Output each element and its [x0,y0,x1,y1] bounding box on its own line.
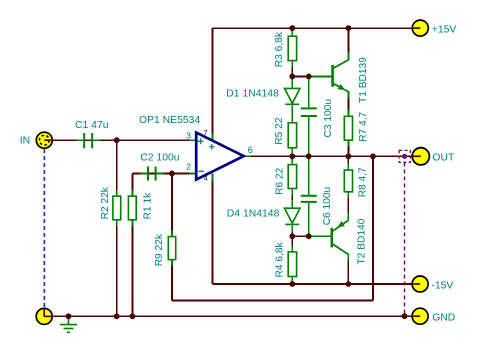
svg-text:7: 7 [204,128,208,137]
terminal +15V [412,20,428,36]
wire R9 bottom to feedback run [171,260,173,301]
R6 pin stubs [291,160,293,165]
svg-text:-15V: -15V [431,280,453,291]
wire pin2 node down to R9 [171,173,173,236]
svg-text:R9 22k: R9 22k [154,233,165,266]
capacitor C6 [301,196,317,202]
svg-text:R8 4,7: R8 4,7 [358,167,369,197]
svg-text:C6 100u: C6 100u [322,187,333,226]
wire IN to op-amp pin3 [44,139,196,141]
svg-text:R2 22k: R2 22k [100,186,111,219]
node +15V rail R3 [289,25,295,31]
op-amp pin7 stub [211,133,213,141]
wire R6 bottom to D4 anode [291,189,293,209]
R9 pin stubs [171,231,173,237]
svg-text:OUT: OUT [432,153,455,164]
wire output line op-amp pin6 to OUT [244,155,421,157]
virtual input link dashed [43,149,45,309]
svg-text:C3 100u: C3 100u [323,99,334,138]
svg-text:T2 BD140: T2 BD140 [357,218,368,264]
resistor R6 [288,165,296,189]
R4 pin stubs [291,246,293,252]
node B D4/R4 [289,233,295,239]
C3 pins [308,76,310,108]
probe dashed box [399,150,410,162]
T2 base pin [309,235,331,237]
svg-text:OP1 NE5534: OP1 NE5534 [139,115,200,126]
node output R5/R6 [289,153,295,159]
resistor R9 [168,237,175,260]
svg-text:C2 100u: C2 100u [140,152,180,163]
wire R4 bottom to -15V rail [291,277,293,285]
resistor R8 [344,170,352,192]
wire -15V rail [212,283,420,285]
terminal OUT [412,148,429,165]
ground [60,316,77,332]
wire input node down to R2 [116,140,118,196]
node GND ground symbol [66,313,72,319]
node -15V rail R4 [289,281,295,287]
svg-text:3: 3 [186,130,191,140]
op-amp pin3 stub [190,139,197,141]
C1 pins [77,139,85,141]
resistor R4 [288,252,296,277]
svg-text:C1 47u: C1 47u [75,120,109,131]
wire R2 bottom to GND rail [116,220,118,316]
svg-text:4: 4 [204,174,208,183]
wire GND bottom rail [44,315,420,317]
node A C3 [306,74,312,80]
wire C2 left down to R1 [131,173,133,196]
wire node B horizontal to T2 base [292,235,310,237]
op-amp pin4 stub [211,174,213,182]
terminal bottom-left GND pad [36,308,52,324]
wire feedback horizontal run [172,299,373,301]
node GND R1 [130,313,136,319]
wire R8 bottom to T2 emitter [347,192,349,214]
op-amp U1 OP1 NE5534 [196,128,244,183]
terminal GND [412,308,428,324]
capacitor C1 [84,133,92,148]
R7 pin stubs [347,110,349,116]
op-amp - input marker [198,170,204,172]
wire R7 bottom to output node [347,140,349,156]
wire R3 bottom to node A [291,61,293,89]
resistor R3 [288,36,296,60]
node output feedback [370,153,376,159]
svg-text:IN: IN [20,136,30,147]
R5 pin stubs [291,148,293,154]
svg-text:R4 6,8k: R4 6,8k [275,241,286,277]
svg-text:+15V: +15V [432,25,457,36]
node pin2/R9 junction [169,171,175,177]
T1 collector lead [334,52,349,68]
wire +15V top rail [44,28,421,316]
node -15V rail T2 collector [345,281,351,287]
R1 pin stubs [131,190,133,196]
capacitor C2 [148,167,156,181]
wire bias column R3 top pin [291,28,293,36]
node B C6 [306,233,312,239]
op-amp + input marker [198,138,204,144]
R8 pin stubs [347,164,349,171]
resistor R5 [288,123,296,148]
svg-text:2: 2 [186,162,191,172]
terminal -15V [412,276,428,292]
C6 pins [308,156,310,195]
svg-text:R5 22: R5 22 [274,117,285,145]
transistor Q1 T1 BD139 [331,65,345,90]
node A R3/D1 [289,74,295,80]
op-amp pin2 stub [190,172,197,174]
resistor R7 [344,116,352,140]
node GND R2 [114,313,120,319]
svg-text:6: 6 [248,145,253,155]
wire T2 collector to -15V rail [347,260,349,284]
R3 pin stubs [291,32,293,37]
svg-text:D1 1N4148: D1 1N4148 [226,88,279,99]
D1 pin stubs [291,80,293,88]
resistor R1 [128,196,136,220]
probe node dot [402,154,407,159]
wire D1 cathode to R5 [291,104,293,123]
wire R1 bottom to GND rail [131,220,133,316]
svg-text:R7 4,7: R7 4,7 [358,111,369,141]
svg-text:R3 6,8k: R3 6,8k [274,31,285,67]
node output R7/R8 [346,153,352,159]
svg-text:T1 BD139: T1 BD139 [358,57,369,103]
wire op-amp V- supply to -15V rail [211,181,213,285]
op-amp supply + marker [209,144,215,150]
wire D4 cathode to base node B [291,224,293,252]
D4 pin stubs [291,200,293,208]
wire T1 emitter to R7 [347,97,349,116]
resistor R2 [113,196,121,220]
wire output node to R8 top [347,156,349,170]
T2 emitter lead [333,213,348,231]
transistor Q2 T2 BD140 [331,221,345,247]
T1 base pin [309,75,332,77]
wire C2 to op-amp pin2 [132,172,196,174]
green pin stubs [77,32,349,282]
capacitor C3 [301,108,317,116]
node input/C1 junction [114,137,120,143]
node output C3/C6 [306,153,312,159]
wire feedback up to output node [372,156,374,300]
node GND probe [402,313,408,319]
diode D4 [285,208,301,224]
svg-text:GND: GND [432,312,455,323]
T2 collector lead [333,244,348,261]
T1 emitter lead [334,84,349,98]
op-amp pin6 stub [244,155,251,157]
R2 pin stubs [116,190,118,196]
virtual output probe dashed [404,163,406,316]
node +15V rail T1 collector [346,25,352,31]
wire R5 bottom to output line [291,148,293,157]
terminal IN [36,132,52,148]
svg-text:D4 1N4148: D4 1N4148 [227,209,280,220]
wire op-amp V+ supply drop [211,28,213,133]
wire T1 collector to +15V rail [347,28,349,54]
wire output line to R6 top [291,156,293,164]
diode D1 [285,88,301,104]
C2 pins [141,172,149,174]
svg-text:R1 1k: R1 1k [142,192,153,220]
svg-text:R6 22: R6 22 [275,167,286,195]
wire node A horizontal to T1 base [292,75,310,77]
